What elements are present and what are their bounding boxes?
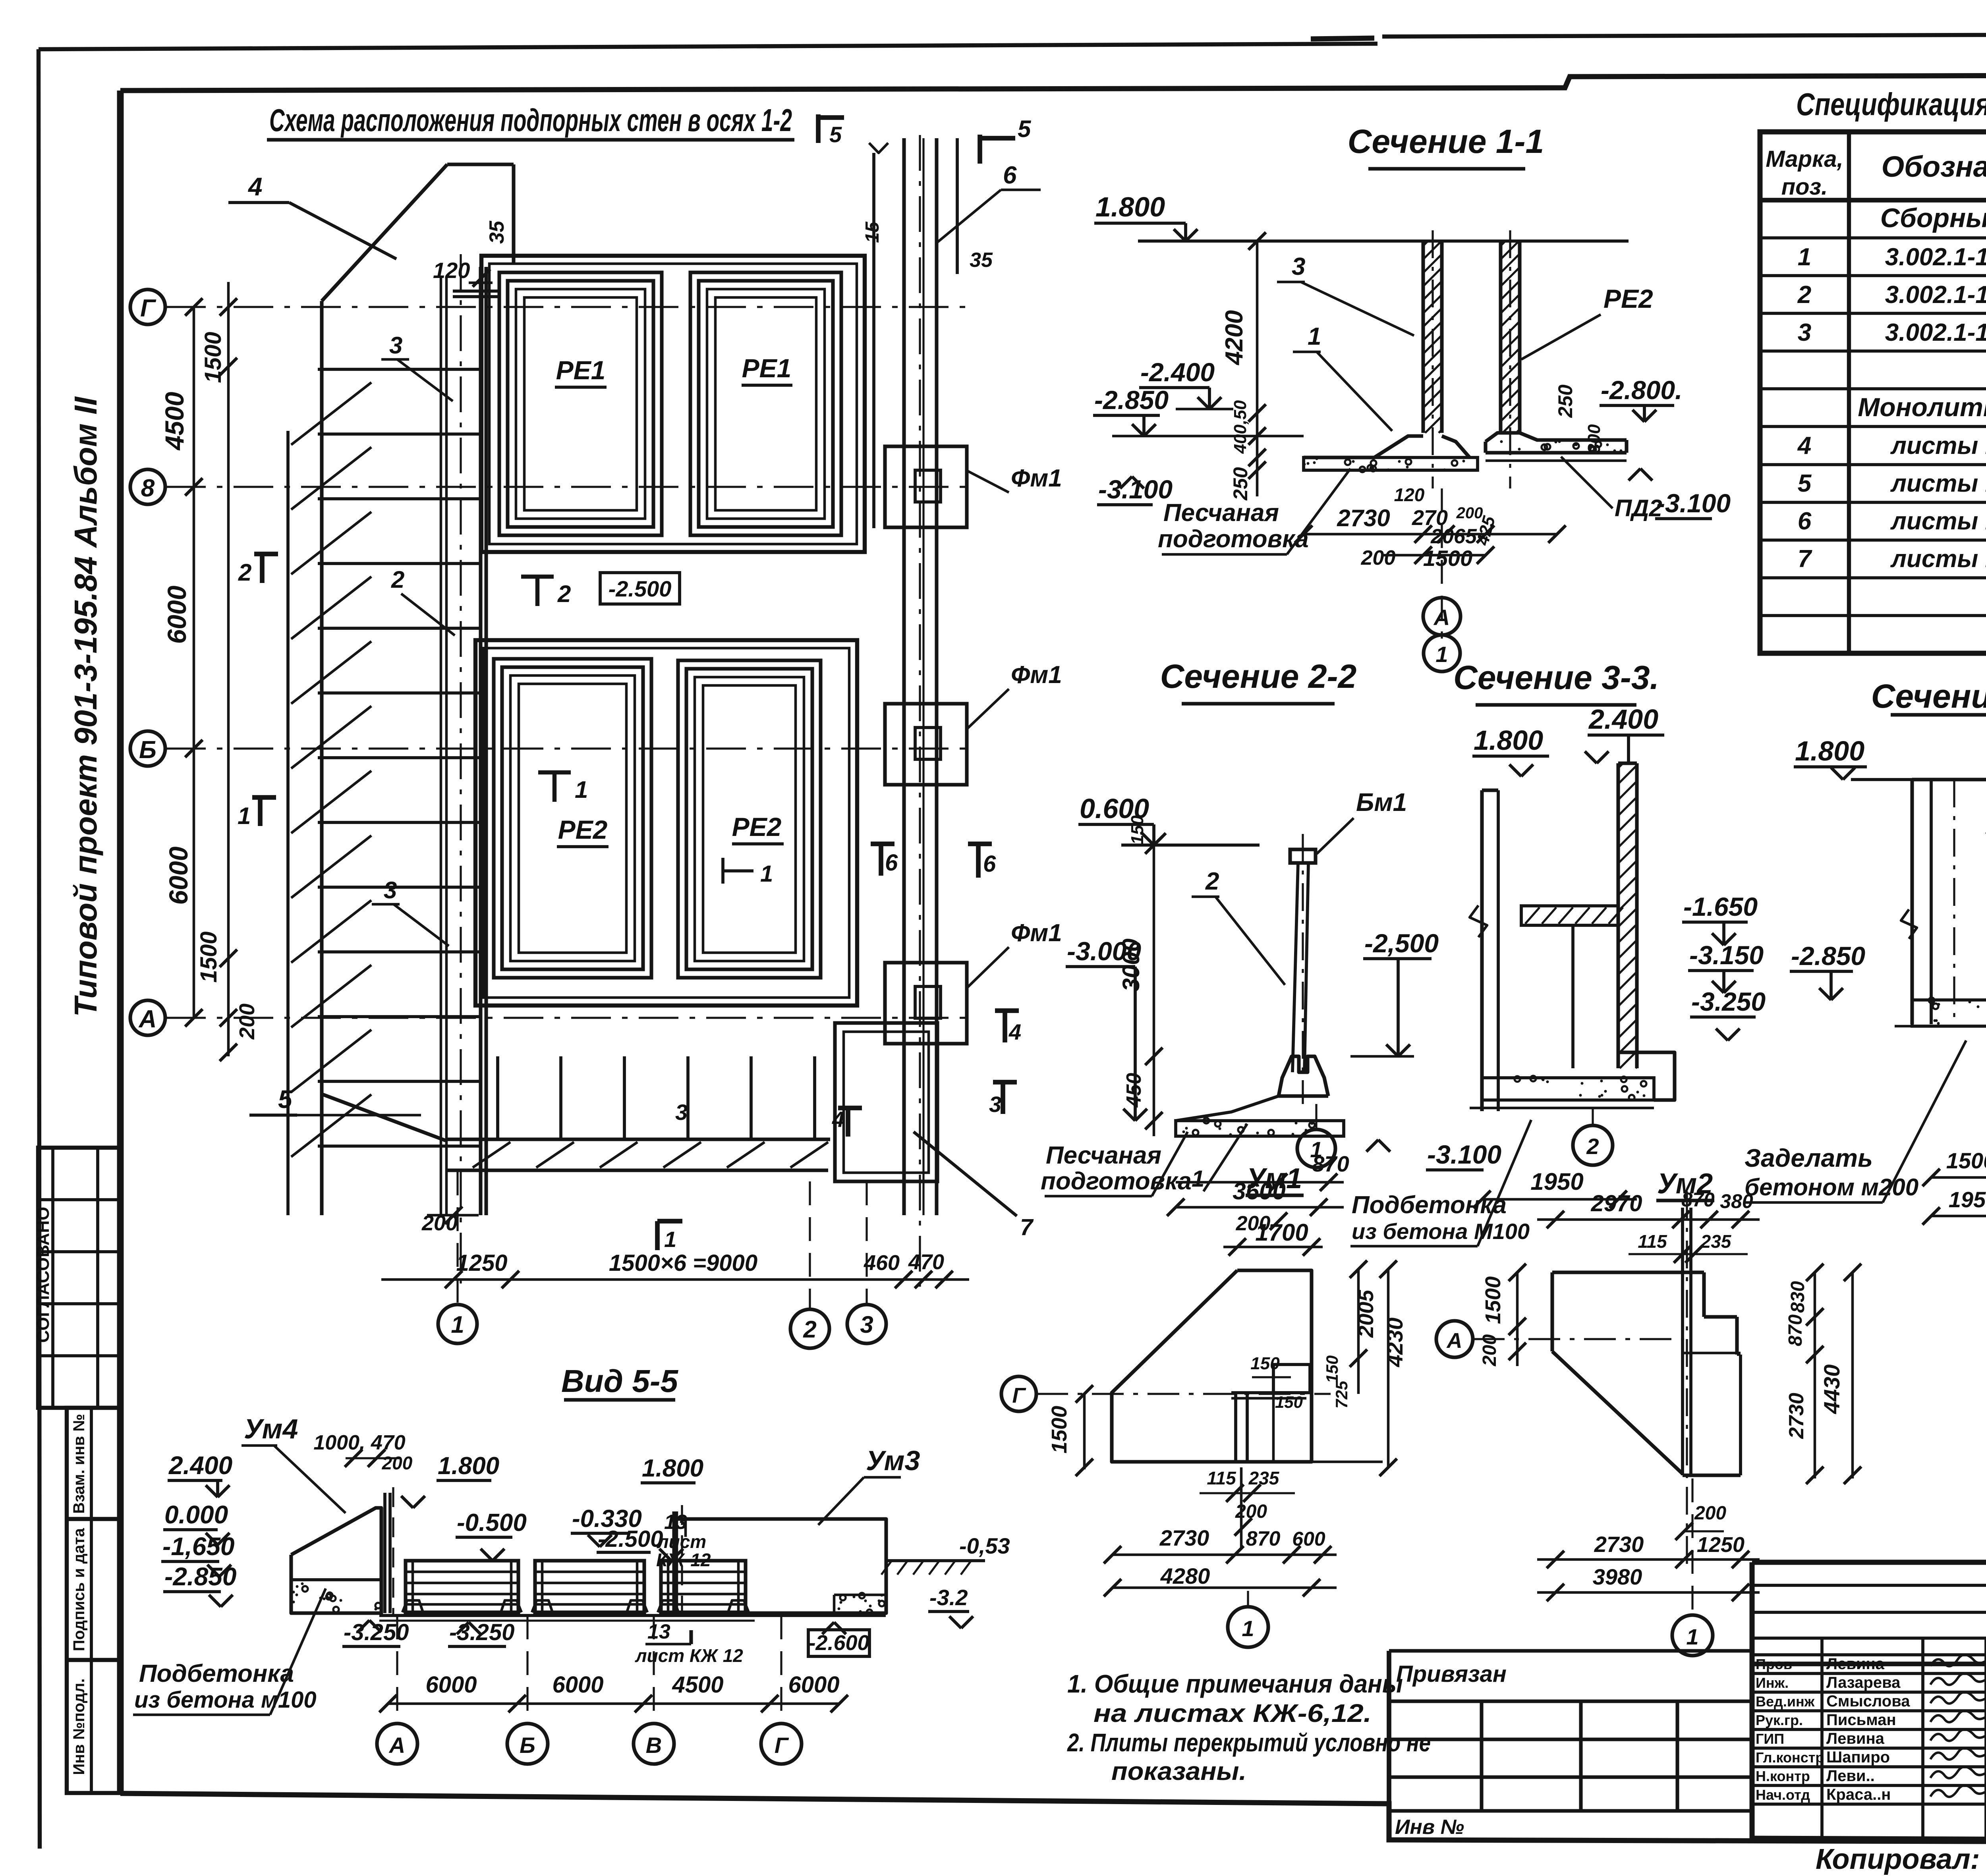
svg-text:2: 2 <box>803 1316 816 1343</box>
svg-text:Левина: Левина <box>1826 1655 1885 1673</box>
svg-text:А: А <box>1433 605 1450 630</box>
svg-text:470: 470 <box>908 1250 944 1274</box>
svg-text:3: 3 <box>384 877 397 903</box>
svg-text:0.000: 0.000 <box>164 1500 228 1529</box>
svg-text:ПД2: ПД2 <box>1615 495 1662 521</box>
svg-text:250: 250 <box>1554 384 1576 418</box>
svg-text:1500: 1500 <box>1946 1148 1986 1173</box>
svg-text:6: 6 <box>1003 162 1017 189</box>
svg-text:Шапиро: Шапиро <box>1826 1749 1890 1766</box>
svg-text:Леви..: Леви.. <box>1826 1767 1875 1785</box>
svg-text:4280: 4280 <box>1160 1563 1210 1588</box>
svg-text:-3.100: -3.100 <box>1427 1140 1501 1169</box>
svg-text:подготовка: подготовка <box>1158 525 1309 553</box>
svg-text:4: 4 <box>832 1107 844 1132</box>
svg-text:Ум3: Ум3 <box>866 1445 920 1476</box>
svg-text:2730: 2730 <box>1785 1393 1808 1439</box>
svg-text:1.800: 1.800 <box>438 1452 499 1480</box>
svg-text:120: 120 <box>1394 484 1425 505</box>
svg-text:Заделать: Заделать <box>1745 1144 1873 1172</box>
svg-text:1700: 1700 <box>1255 1219 1308 1246</box>
svg-text:1250: 1250 <box>456 1250 507 1276</box>
svg-text:1: 1 <box>1308 323 1321 350</box>
svg-text:Левина: Левина <box>1826 1730 1885 1747</box>
svg-text:2970: 2970 <box>1590 1191 1642 1216</box>
svg-text:Сечение 4-4: Сечение 4-4 <box>1871 677 1986 715</box>
svg-text:Инж.: Инж. <box>1756 1675 1789 1691</box>
svg-text:Б: Б <box>520 1733 535 1758</box>
svg-text:1950: 1950 <box>1530 1168 1583 1195</box>
svg-text:А: А <box>1446 1329 1462 1353</box>
svg-text:-2,500: -2,500 <box>1364 928 1439 958</box>
svg-text:-1.650: -1.650 <box>1683 892 1758 921</box>
svg-text:-2.600: -2.600 <box>808 1631 869 1655</box>
svg-text:4: 4 <box>247 172 263 201</box>
svg-text:150: 150 <box>1275 1393 1303 1411</box>
svg-text:бетоном м200: бетоном м200 <box>1745 1174 1918 1200</box>
svg-text:1500: 1500 <box>196 931 222 982</box>
svg-text:1: 1 <box>1686 1624 1698 1649</box>
svg-text:6000: 6000 <box>164 846 193 905</box>
svg-text:-3.250: -3.250 <box>344 1619 409 1645</box>
svg-text:1: 1 <box>1242 1616 1254 1641</box>
svg-text:лист КЖ 12: лист КЖ 12 <box>635 1645 743 1666</box>
svg-text:200: 200 <box>1361 546 1396 569</box>
svg-text:1250: 1250 <box>1697 1533 1745 1557</box>
svg-text:Сечение 2-2: Сечение 2-2 <box>1160 658 1356 695</box>
svg-text:Фм1: Фм1 <box>1011 661 1062 689</box>
svg-text:Н.контр: Н.контр <box>1756 1768 1810 1784</box>
svg-text:200: 200 <box>235 1004 259 1040</box>
svg-text:1: 1 <box>1435 642 1448 667</box>
svg-text:35: 35 <box>970 249 993 272</box>
svg-text:Взам. инв №: Взам. инв № <box>70 1414 88 1513</box>
svg-text:13: 13 <box>647 1620 670 1643</box>
svg-text:450: 450 <box>1122 1073 1146 1108</box>
svg-text:4: 4 <box>1797 432 1811 459</box>
svg-text:6000: 6000 <box>162 585 191 644</box>
svg-text:-0,53: -0,53 <box>959 1533 1010 1558</box>
svg-text:600: 600 <box>1292 1528 1325 1550</box>
svg-text:3980: 3980 <box>1593 1564 1642 1589</box>
svg-text:Бм1: Бм1 <box>1356 788 1407 816</box>
svg-text:Вид 5-5: Вид 5-5 <box>561 1363 678 1399</box>
svg-text:Марка,: Марка, <box>1766 146 1843 172</box>
svg-text:-2.500: -2.500 <box>598 1526 663 1552</box>
svg-text:6: 6 <box>983 851 996 877</box>
svg-text:на листах КЖ-6,12.: на листах КЖ-6,12. <box>1093 1699 1372 1727</box>
svg-text:1500×6 =9000: 1500×6 =9000 <box>609 1250 757 1276</box>
svg-text:1950: 1950 <box>1949 1187 1986 1212</box>
svg-text:1.800: 1.800 <box>1474 725 1543 756</box>
svg-text:Копировал: Корецкая: Копировал: Корецкая <box>1816 1843 1986 1875</box>
svg-text:7: 7 <box>1798 545 1812 573</box>
svg-text:2730: 2730 <box>1337 505 1390 531</box>
svg-text:3.002.1-1 Вып.1: 3.002.1-1 Вып.1 <box>1885 319 1986 346</box>
svg-text:5: 5 <box>1018 116 1032 142</box>
svg-text:300: 300 <box>1584 424 1604 454</box>
svg-text:400,50: 400,50 <box>1231 400 1250 454</box>
svg-text:5: 5 <box>1798 470 1812 497</box>
svg-text:6: 6 <box>885 850 898 876</box>
svg-text:870: 870 <box>1246 1527 1281 1550</box>
svg-text:РЕ1: РЕ1 <box>556 355 606 385</box>
svg-text:6: 6 <box>1798 508 1812 535</box>
svg-text:Г: Г <box>1012 1384 1026 1407</box>
svg-text:1500: 1500 <box>200 332 226 383</box>
svg-text:5: 5 <box>829 122 842 147</box>
svg-text:Нач.отд: Нач.отд <box>1756 1787 1810 1803</box>
svg-text:150: 150 <box>1250 1354 1280 1373</box>
svg-text:1: 1 <box>451 1311 464 1338</box>
svg-text:РЕ1: РЕ1 <box>742 353 792 383</box>
svg-text:3: 3 <box>389 332 402 359</box>
svg-text:150: 150 <box>1323 1355 1341 1383</box>
svg-text:из бетона М100: из бетона М100 <box>1352 1219 1530 1244</box>
svg-text:1.800: 1.800 <box>1795 735 1864 766</box>
svg-text:Вед.инж: Вед.инж <box>1756 1693 1815 1710</box>
svg-text:листы КЖ 5,6: листы КЖ 5,6 <box>1890 470 1986 497</box>
svg-text:-3.100: -3.100 <box>1656 488 1731 518</box>
svg-text:В: В <box>646 1733 662 1758</box>
svg-text:-1,650: -1,650 <box>162 1532 234 1561</box>
svg-text:Подбетонка: Подбетонка <box>1352 1191 1507 1219</box>
svg-text:1500: 1500 <box>1047 1406 1071 1453</box>
svg-text:Г: Г <box>775 1733 789 1758</box>
svg-text:5: 5 <box>278 1085 293 1114</box>
svg-text:1.800: 1.800 <box>1095 191 1165 222</box>
svg-text:Спецификация подпорных стен в: Спецификация подпорных стен в осях „1-2" <box>1796 87 1986 122</box>
svg-text:СОГЛАСОВАНО: СОГЛАСОВАНО <box>33 1207 53 1343</box>
svg-text:-2.400: -2.400 <box>1140 357 1215 387</box>
svg-text:2: 2 <box>391 566 404 593</box>
svg-text:РЕ2: РЕ2 <box>1603 284 1653 313</box>
svg-text:Типовой проект 901-3-195.84: Типовой проект 901-3-195.84 Альбом II <box>68 396 103 1017</box>
svg-text:подготовка: подготовка <box>1041 1168 1192 1195</box>
svg-text:3: 3 <box>989 1092 1001 1117</box>
svg-text:1: 1 <box>664 1227 676 1252</box>
svg-text:Привязан: Привязан <box>1396 1661 1507 1687</box>
svg-text:Ум4: Ум4 <box>244 1413 298 1444</box>
svg-text:Фм1: Фм1 <box>1011 465 1062 492</box>
svg-text:-2.500: -2.500 <box>609 576 672 601</box>
svg-text:РЕ2: РЕ2 <box>732 812 782 841</box>
svg-text:235: 235 <box>1248 1468 1280 1488</box>
svg-text:4500: 4500 <box>160 392 189 451</box>
svg-text:6000: 6000 <box>552 1672 603 1698</box>
svg-text:4430: 4430 <box>1819 1365 1844 1415</box>
svg-text:-0.500: -0.500 <box>457 1509 527 1536</box>
svg-text:2.400: 2.400 <box>1588 704 1658 735</box>
svg-text:-3.2: -3.2 <box>929 1585 968 1610</box>
svg-text:2: 2 <box>1797 281 1811 309</box>
svg-text:235: 235 <box>1700 1231 1732 1252</box>
svg-text:ГИП: ГИП <box>1756 1731 1784 1747</box>
svg-text:3: 3 <box>1798 319 1811 346</box>
svg-text:А: А <box>388 1733 405 1758</box>
svg-text:Песчаная: Песчаная <box>1163 499 1279 527</box>
svg-text:листы КЖ 5,6: листы КЖ 5,6 <box>1890 508 1986 535</box>
svg-text:Обозначение: Обозначение <box>1882 150 1986 183</box>
svg-text:1. Общие примечания даны: 1. Общие примечания даны <box>1067 1669 1403 1698</box>
svg-text:200: 200 <box>1694 1503 1726 1524</box>
svg-text:2065: 2065 <box>1430 525 1477 548</box>
svg-text:-2.850: -2.850 <box>1094 385 1169 415</box>
svg-text:-3.150: -3.150 <box>1689 940 1764 970</box>
svg-text:250: 250 <box>1229 467 1252 501</box>
svg-text:3.002.1-1 Вып.1: 3.002.1-1 Вып.1 <box>1885 243 1986 271</box>
svg-text:120: 120 <box>433 258 470 283</box>
svg-text:Ум1: Ум1 <box>1246 1163 1302 1195</box>
svg-text:Фм1: Фм1 <box>1011 919 1062 947</box>
svg-text:Подбетонка: Подбетонка <box>139 1660 294 1687</box>
svg-text:3: 3 <box>1292 253 1305 280</box>
svg-text:2: 2 <box>1586 1134 1599 1159</box>
svg-text:1: 1 <box>1192 1166 1204 1192</box>
svg-text:4: 4 <box>1008 1019 1021 1044</box>
svg-text:-2.850: -2.850 <box>164 1562 236 1591</box>
svg-text:1: 1 <box>238 803 251 829</box>
svg-text:Смыслова: Смыслова <box>1826 1693 1910 1710</box>
svg-text:А: А <box>138 1006 157 1033</box>
svg-text:6000: 6000 <box>425 1672 477 1698</box>
svg-text:Сечение 3-3.: Сечение 3-3. <box>1453 659 1659 696</box>
svg-text:показаны.: показаны. <box>1111 1757 1246 1785</box>
svg-text:-2.850: -2.850 <box>1791 941 1865 971</box>
svg-text:Схема расположения подпорных с: Схема расположения подпорных стен в осях… <box>269 102 792 138</box>
svg-text:725: 725 <box>1332 1380 1351 1409</box>
svg-text:3: 3 <box>675 1100 688 1125</box>
svg-text:Подпись и дата: Подпись и дата <box>70 1528 88 1651</box>
svg-text:Инв №подл.: Инв №подл. <box>70 1678 88 1775</box>
svg-text:1: 1 <box>575 776 588 803</box>
svg-text:7: 7 <box>1020 1214 1034 1240</box>
svg-text:2730: 2730 <box>1594 1532 1644 1557</box>
svg-text:2: 2 <box>238 559 251 586</box>
svg-text:3: 3 <box>860 1311 873 1338</box>
svg-text:3.002.1-1 Вып.1: 3.002.1-1 Вып.1 <box>1885 281 1986 309</box>
svg-text:115: 115 <box>1638 1231 1667 1252</box>
svg-text:поз.: поз. <box>1781 174 1828 200</box>
svg-text:2: 2 <box>1205 868 1219 895</box>
svg-text:Сечение 1-1: Сечение 1-1 <box>1348 123 1544 160</box>
svg-text:листы КЖ 5,6: листы КЖ 5,6 <box>1890 432 1986 459</box>
svg-text:8: 8 <box>141 475 155 502</box>
svg-text:РЕ2: РЕ2 <box>558 815 608 844</box>
svg-text:листы КЖ 5,6: листы КЖ 5,6 <box>1890 545 1986 573</box>
svg-text:Гл.констр: Гл.констр <box>1756 1749 1824 1766</box>
svg-text:1.800: 1.800 <box>642 1455 703 1482</box>
svg-text:200: 200 <box>382 1453 413 1473</box>
svg-text:Песчаная: Песчаная <box>1046 1142 1161 1169</box>
svg-text:6000: 6000 <box>788 1672 839 1698</box>
svg-text:-2.800.: -2.800. <box>1601 375 1682 405</box>
svg-text:-3.250: -3.250 <box>1691 987 1766 1016</box>
svg-text:Лазарева: Лазарева <box>1826 1674 1901 1691</box>
svg-text:4200: 4200 <box>1221 310 1248 366</box>
svg-text:Пров: Пров <box>1756 1656 1792 1672</box>
svg-text:2. Плиты перекрытий условно не: 2. Плиты перекрытий условно не <box>1067 1728 1431 1757</box>
svg-text:150: 150 <box>1128 815 1147 845</box>
svg-text:1: 1 <box>1798 243 1811 271</box>
svg-text:35: 35 <box>485 220 508 244</box>
svg-text:4500: 4500 <box>672 1672 723 1698</box>
svg-text:1500: 1500 <box>1481 1276 1505 1324</box>
svg-text:Монолитные жел.-бет. конструк: Монолитные жел.-бет. конструкции <box>1858 392 1986 422</box>
svg-text:Инв №: Инв № <box>1395 1816 1464 1839</box>
svg-text:Сборные жел.-бет. конструкции: Сборные жел.-бет. конструкции <box>1880 203 1986 233</box>
svg-text:2.400: 2.400 <box>168 1451 232 1480</box>
svg-text:870: 870 <box>1785 1314 1806 1346</box>
svg-text:2730: 2730 <box>1159 1525 1209 1550</box>
svg-text:115: 115 <box>1207 1468 1236 1488</box>
svg-text:830: 830 <box>1787 1281 1808 1313</box>
svg-text:4230: 4230 <box>1382 1318 1407 1368</box>
svg-text:Краса..н: Краса..н <box>1826 1786 1891 1803</box>
svg-text:1: 1 <box>1310 1137 1322 1162</box>
svg-text:Б: Б <box>139 736 156 764</box>
svg-text:3000: 3000 <box>1118 938 1144 991</box>
svg-text:из бетона м100: из бетона м100 <box>134 1687 317 1713</box>
svg-text:Рук.гр.: Рук.гр. <box>1756 1712 1803 1728</box>
svg-text:200: 200 <box>1479 1334 1500 1366</box>
svg-text:1: 1 <box>760 861 773 887</box>
svg-text:460: 460 <box>864 1251 900 1275</box>
svg-text:380: 380 <box>1720 1190 1753 1212</box>
svg-text:Г: Г <box>140 295 156 322</box>
svg-text:2: 2 <box>557 581 571 607</box>
svg-text:Письман: Письман <box>1826 1711 1896 1729</box>
